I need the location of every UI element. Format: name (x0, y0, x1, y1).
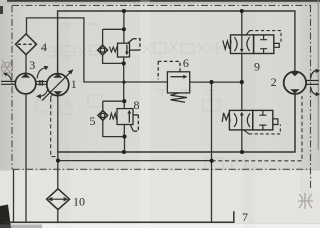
rotation arrows at coupling (36, 66, 49, 99)
wire: pump3 suction down to tank (25, 94, 27, 222)
filter 4 (16, 34, 37, 55)
svg-text:5: 5 (90, 114, 96, 128)
svg-text:8: 8 (134, 98, 140, 112)
check valve (upper bypass) (98, 45, 108, 55)
directional valve 9 (231, 31, 282, 54)
wire: drain rail dashed part to motor case drain (212, 96, 302, 161)
wire: filter4 outlet line to x83.9 drop (27, 18, 168, 82)
svg-text:4: 4 (41, 40, 47, 54)
wire: tank bottom rail 7 (5, 211, 234, 222)
wire: pump1 case drain (dashed) (51, 95, 53, 99)
ghost bleed-through marks (decorative) (1, 60, 313, 209)
wire: drain rail y160.6 (solid part) (58, 160, 212, 162)
wire: valve6 outlet to valve9 drop line (190, 81, 242, 83)
svg-text:6: 6 (183, 56, 189, 70)
svg-text:10: 10 (73, 194, 85, 208)
svg-text:9: 9 (254, 59, 260, 73)
pump 3 input shaft (1, 73, 15, 85)
relief valve (upper, with W spring) (118, 39, 141, 57)
pump 3 (15, 73, 36, 94)
wire: tank drop at left boundary (13, 169, 15, 222)
spring W of upper relief valve (110, 47, 117, 52)
shaft coupling between pumps (36, 80, 47, 86)
spring M of lower directional valve (222, 113, 230, 122)
relief valve 8 (117, 109, 138, 132)
wire: filter4 to pump3 (25, 55, 27, 74)
svg-text:2: 2 (271, 75, 277, 89)
wire: valve9 vertical line x241.8 (241, 11, 243, 152)
relief valve 6 (158, 61, 190, 102)
pump 1 (variable) (42, 69, 73, 100)
directional valve (lower, motor control) (229, 110, 280, 133)
enclosure boundary (dash-dot) (12, 5, 311, 188)
svg-text:7: 7 (242, 210, 248, 224)
wire: pump1 suction through filter10 to tank (57, 96, 59, 223)
spring M of relief valve 8 (110, 113, 117, 120)
wire: pump1 pressure riser, top rail to motor (58, 11, 295, 74)
svg-text:3: 3 (29, 58, 35, 72)
filter 10 (47, 189, 70, 210)
wire: branch x124 from top rail to relief assembly (103, 11, 125, 152)
wire: drop x211.5 to tank (211, 82, 213, 222)
motor 2 (284, 72, 306, 94)
wire: return rail y152 to motor bottom (58, 94, 295, 152)
motor 2 output shaft (306, 69, 320, 97)
spring W of valve 9 (223, 41, 231, 50)
svg-text:1: 1 (71, 77, 77, 91)
check valve 5 (98, 111, 108, 121)
